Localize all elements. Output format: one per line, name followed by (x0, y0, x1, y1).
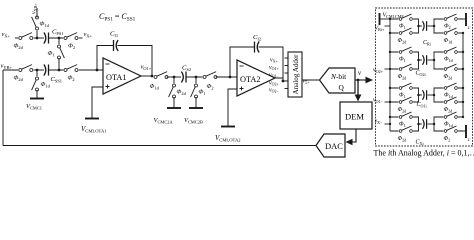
block Analog Adder (288, 52, 302, 97)
node row2 left (36, 69, 39, 72)
svg-text:Φ1: Φ1 (199, 89, 206, 96)
svg-text:Φ1: Φ1 (399, 24, 406, 30)
svg-text:Φ1d: Φ1d (444, 38, 453, 44)
capacitor CI1 feedback loop wires (97, 46, 152, 77)
svg-text:OTA2: OTA2 (240, 75, 261, 84)
capacitor CI2 (255, 42, 260, 53)
switch Phi1d below row2 (36, 70, 38, 78)
right rail (462, 33, 464, 117)
svg-text:vΣ+: vΣ+ (303, 79, 311, 85)
inset row A node cap left (417, 25, 420, 28)
wire OTA2 output (275, 78, 288, 81)
svg-text:Φ2: Φ2 (207, 83, 214, 90)
capacitor CPS1 (44, 33, 49, 44)
inset row D switch upper-right (444, 112, 459, 119)
inset row C switch upper-left (399, 83, 414, 90)
svg-text:Φ1: Φ1 (399, 93, 406, 99)
svg-text:Φ2: Φ2 (68, 75, 75, 82)
adder input stub vO2- (285, 88, 289, 90)
inset row C node cap right (433, 94, 436, 97)
switch Phi2d row2 (18, 65, 34, 72)
wire to VCMC2B (195, 97, 197, 108)
svg-text:CSS1: CSS1 (51, 76, 63, 83)
inset row C right fork wires (434, 88, 463, 102)
switch Phi2 stage2 (202, 72, 218, 79)
svg-text:Φ1d: Φ1d (150, 83, 160, 90)
svg-text:vX+: vX+ (270, 58, 278, 64)
wire stage2 b (186, 76, 205, 78)
svg-text:VCMLOTA2: VCMLOTA2 (215, 134, 241, 143)
svg-text:CPS1 = CSS1: CPS1 = CSS1 (99, 12, 136, 23)
switch Phi2d below stage2 left node (173, 77, 175, 85)
svg-text:vO1+: vO1+ (141, 64, 152, 71)
wire phi1 to row2 (58, 58, 60, 70)
inset row D left fork wires (390, 117, 419, 131)
svg-text:Φ1d: Φ1d (444, 122, 453, 128)
svg-text:CI1: CI1 (110, 31, 118, 38)
svg-text:CRi: CRi (423, 40, 432, 46)
switch Phi1 below stage2 right node (195, 77, 197, 85)
inset row B switch upper-left (399, 47, 414, 54)
inset row B switch upper-right (444, 47, 459, 54)
dashed inset box (376, 8, 473, 146)
switch Phi2 row1 (63, 33, 79, 40)
inset row D right fork wires (434, 117, 463, 131)
inset row A left fork wires (390, 19, 419, 33)
svg-text:vX+: vX+ (84, 31, 93, 38)
svg-text:DEM: DEM (345, 112, 364, 122)
svg-text:CS2: CS2 (182, 65, 191, 72)
svg-text:vO1+: vO1+ (269, 65, 279, 71)
svg-text:Φ2d: Φ2d (444, 74, 453, 80)
node row1 left (36, 37, 39, 40)
inset row C switch upper-right (444, 83, 459, 90)
wire to VCMC1 (36, 90, 38, 98)
svg-text:VCMLOTA1: VCMLOTA1 (81, 125, 107, 134)
svg-text:Φ2d: Φ2d (398, 38, 407, 44)
svg-text:Φ2d: Φ2d (14, 75, 24, 82)
VCMLCMF bar (379, 13, 381, 25)
wire row1 right (49, 37, 67, 39)
wire stage2 to OTA2 (216, 76, 238, 78)
svg-text:CPS1: CPS1 (52, 29, 64, 36)
inset row D switch lower-right (444, 126, 459, 133)
wire to VCMC2A (173, 97, 175, 108)
node stage2 right (195, 76, 198, 79)
inset row D capacitor (419, 123, 423, 125)
arrowhead into DAC (346, 139, 353, 145)
block DAC flag (316, 134, 345, 157)
OTA2 minus (240, 65, 244, 67)
terminal bar VCMC2B (189, 107, 203, 109)
OTA1 minus (106, 63, 110, 65)
block DEM (340, 102, 372, 129)
wire row2 between switch and cap (31, 69, 44, 71)
inset row C node cap left (417, 94, 420, 97)
node vO2+ (282, 80, 285, 83)
svg-text:vX+: vX+ (2, 31, 11, 38)
inset row B switch lower-right (444, 64, 459, 71)
svg-text:VCMC1: VCMC1 (26, 103, 42, 110)
switch Phi2 row2 (63, 65, 79, 72)
quantizer N-bit Q flag (320, 68, 356, 93)
inset row B node cap left (417, 59, 420, 62)
inset terminal bar row A (463, 18, 466, 20)
svg-text:Φ1: Φ1 (399, 57, 406, 63)
svg-text:2: 2 (468, 25, 470, 30)
wire v down to DEM (357, 80, 359, 95)
svg-text:v: v (358, 70, 362, 77)
svg-text:VCMC2A: VCMC2A (154, 117, 174, 124)
svg-text:CXi: CXi (416, 140, 425, 146)
wire stage2 a (167, 76, 182, 78)
svg-text:Φ2: Φ2 (68, 43, 75, 50)
svg-text:VCMC2B: VCMC2B (184, 117, 203, 124)
op-amp OTA2 (237, 60, 275, 96)
node v branch (357, 79, 360, 82)
inset row C switch lower-right (444, 97, 459, 104)
svg-text:vO2−: vO2− (269, 88, 279, 94)
svg-text:Φ1d: Φ1d (40, 21, 50, 28)
wire quantizer output v (355, 79, 367, 81)
svg-text:vO1−: vO1− (269, 73, 279, 79)
inset row A right fork wires (434, 19, 463, 33)
node row2 right (58, 69, 61, 72)
capacitor CS2 (181, 72, 186, 83)
adder input stub vO1- (285, 72, 289, 74)
adder input stub vX+ (285, 57, 289, 59)
inset row B right fork wires (434, 52, 463, 69)
left rail (389, 19, 391, 131)
svg-text:Q: Q (339, 83, 345, 92)
switch Phi1d stage2 (153, 72, 169, 79)
switch Phi2d row1 (18, 33, 34, 40)
svg-text:vO2+: vO2+ (269, 81, 279, 87)
svg-text:Φ1d: Φ1d (41, 81, 51, 88)
inset row D node cap right (433, 123, 436, 126)
inset row B node cap right (433, 59, 436, 62)
svg-text:OTA1: OTA1 (106, 73, 127, 82)
arrowhead into DEM (355, 95, 362, 102)
svg-text:Φ2d: Φ2d (398, 136, 407, 142)
capacitor CI2 feedback loop wires (230, 47, 283, 81)
inset row D node cap left (417, 123, 420, 126)
OTA1 plus (106, 85, 110, 89)
switch Phi1 between row1 and row2 (58, 38, 60, 46)
wire OTA2 plus input (228, 89, 237, 126)
inset terminal bar row D (463, 130, 466, 132)
wire stub to Phi1d top switch (36, 30, 38, 38)
svg-text:Φ2d: Φ2d (398, 74, 407, 80)
svg-text:N-bit: N-bit (330, 72, 347, 81)
terminal bar VCMLOTA2 (221, 126, 235, 128)
svg-text:Φ1d: Φ1d (444, 93, 453, 99)
inset row A input wire (385, 25, 391, 27)
wire left riser (2, 70, 4, 146)
inset row B left fork wires (390, 52, 419, 69)
svg-text:Φ2: Φ2 (444, 24, 451, 30)
wire row1 terminal (77, 37, 83, 39)
OTA2 plus (240, 87, 244, 91)
inset row A switch upper-left (399, 14, 414, 21)
inset row A capacitor (419, 25, 423, 27)
wire adder output (302, 79, 320, 81)
inset row A node cap right (433, 25, 436, 28)
terminal bar VCMLOTA1 (85, 118, 99, 120)
svg-text:VRi+: VRi+ (375, 26, 386, 32)
wire DAC feedback bottom and left riser to vYB+ (3, 145, 316, 147)
svg-text:Φ1: Φ1 (48, 50, 55, 57)
wire OTA1 output (141, 75, 156, 77)
wire row1 input (15, 37, 20, 39)
wire VCMLCMF to rail (380, 18, 391, 20)
op-amp OTA1 (103, 58, 141, 94)
inset row A switch lower-right (444, 28, 459, 35)
inset row D switch upper-left (399, 112, 414, 119)
inset row C switch lower-left (399, 97, 414, 104)
node OTA1 output (151, 75, 154, 78)
adder input stub vO1+ (285, 65, 289, 67)
svg-text:Φ2d: Φ2d (14, 43, 24, 50)
inset row C input wire (385, 101, 391, 103)
arrowhead output v (366, 77, 374, 84)
node row1 right (58, 37, 61, 40)
wire row2 cap to OTA1 (49, 69, 104, 71)
svg-text:Φ1d: Φ1d (444, 57, 453, 63)
rail junction dots right (462, 32, 464, 34)
svg-text:Φ1: Φ1 (399, 122, 406, 128)
inset row B capacitor (419, 59, 423, 61)
svg-text:vYB+: vYB+ (1, 63, 13, 70)
node summing junction OTA1 (96, 69, 99, 72)
node summing junction OTA2 (229, 76, 232, 79)
svg-text:CO2i: CO2i (416, 71, 427, 77)
wire OTA1 plus input (92, 87, 103, 118)
svg-text:vO2+: vO2+ (373, 68, 384, 74)
svg-text:CI2: CI2 (253, 34, 261, 41)
inset row B switch lower-left (399, 64, 414, 71)
svg-text:Φ2d: Φ2d (398, 107, 407, 113)
node stage2 left (173, 76, 176, 79)
svg-text:Analog Adder: Analog Adder (292, 54, 300, 95)
inset row D input wire (385, 123, 391, 125)
inset row C capacitor (419, 94, 423, 96)
svg-text:2: 2 (468, 137, 470, 142)
inset row A switch upper-right (444, 14, 459, 21)
switch Phi1d top (32, 15, 39, 31)
capacitor CSS1 (44, 65, 49, 76)
rail junction dots left (389, 18, 391, 20)
svg-text:Φ2d: Φ2d (444, 107, 453, 113)
svg-text:vXB+: vXB+ (32, 3, 38, 14)
wire row2 input (3, 69, 20, 71)
inset row A switch lower-left (399, 28, 414, 35)
svg-text:Φ2: Φ2 (444, 136, 451, 142)
wire row1 mid (31, 37, 44, 39)
terminal bar VCMC1 (30, 98, 44, 100)
svg-text:vO1−: vO1− (373, 98, 384, 104)
inset row B input wire (385, 68, 391, 70)
svg-text:DAC: DAC (325, 141, 343, 151)
svg-text:vX−: vX− (375, 119, 384, 125)
terminal bar VCMC2A (167, 107, 181, 109)
inset row C left fork wires (390, 88, 419, 102)
inset row D switch lower-left (399, 126, 414, 133)
wire DEM to DAC (350, 129, 356, 142)
svg-text:Φ2d: Φ2d (177, 89, 187, 96)
wire to vXB+ rail (36, 8, 38, 18)
capacitor CI1 (114, 40, 119, 51)
svg-text:CO1i: CO1i (417, 102, 428, 108)
svg-text:The ith Analog Adder, i = 0,1,: The ith Analog Adder, i = 0,1,…. (374, 149, 474, 158)
